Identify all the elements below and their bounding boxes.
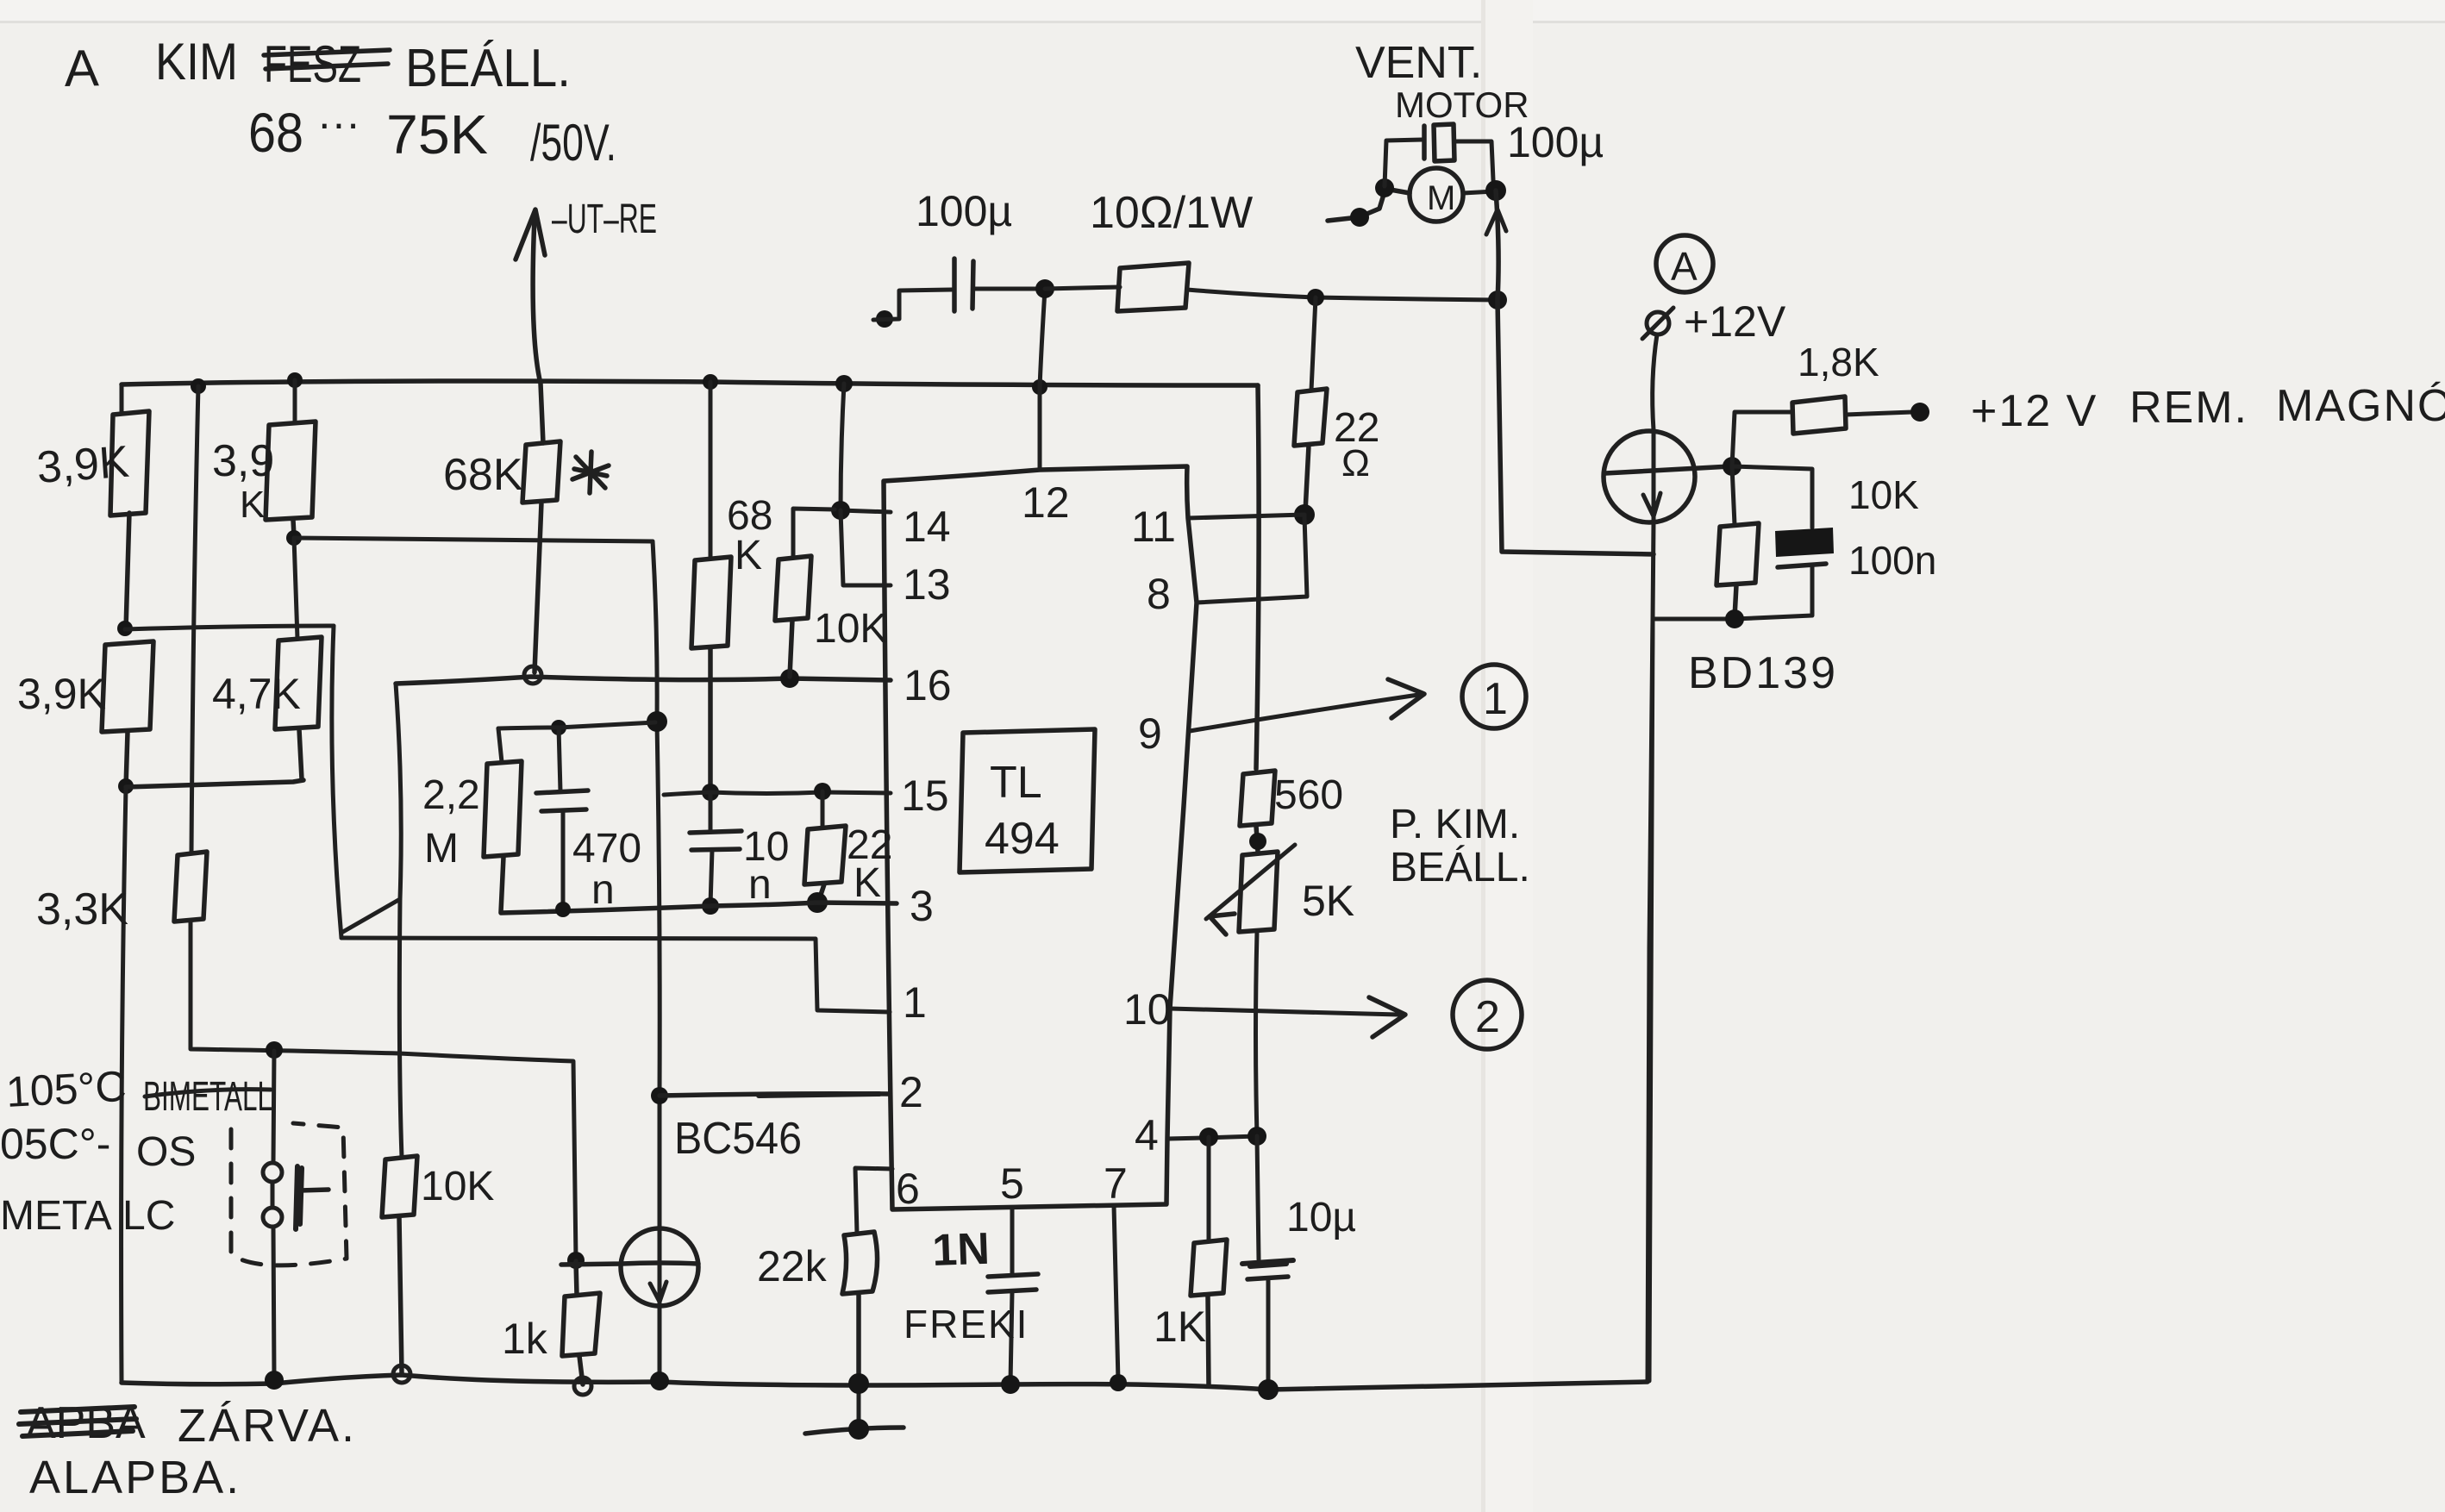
svg-text:4,7K: 4,7K (212, 670, 301, 718)
svg-text:LC: LC (122, 1193, 175, 1239)
node ground bus junction 10K (open) (393, 1365, 410, 1383)
svg-text:TL: TL (990, 758, 1042, 808)
svg-text:3,9K: 3,9K (17, 670, 106, 718)
wire right rail up (1648, 619, 1653, 1382)
wire pin1 line long (341, 938, 890, 1012)
wire pin7 down (1114, 1205, 1118, 1381)
svg-text:14: 14 (903, 503, 951, 551)
node pin3 junction x824 (702, 897, 719, 915)
wire 5K down to pin4 node (1256, 932, 1258, 1136)
svg-text:M: M (1427, 179, 1455, 217)
svg-text:494: 494 (985, 814, 1060, 864)
svg-text:1: 1 (903, 978, 927, 1027)
wire frame diagonal into pin1 line (341, 899, 400, 933)
wire pin9 arrow to circled 1 (1190, 695, 1418, 731)
svg-text:+12 V: +12 V (1971, 386, 2098, 436)
potentiometer R 5K (1239, 852, 1278, 932)
svg-text:16: 16 (904, 661, 952, 709)
wire top supply bus (122, 381, 1258, 385)
svg-text:13: 13 (903, 560, 951, 609)
svg-text:BIMETALL: BIMETALL (143, 1074, 272, 1120)
wire left rail lower part (122, 787, 126, 1383)
svg-text:1,8K: 1,8K (1798, 340, 1879, 384)
node ground bus junction bimetal (265, 1371, 284, 1390)
svg-text:10µ: 10µ (1286, 1195, 1356, 1240)
node 1K top junction base BC546 (567, 1252, 585, 1269)
svg-text:10K: 10K (421, 1164, 494, 1209)
node ground bus junction pin5 cap (1001, 1375, 1020, 1394)
wire y913 from left rail to 4.7K bottom (126, 780, 303, 787)
svg-text:n: n (748, 862, 772, 908)
resistor R 3.9K no.2 lower-left (102, 641, 153, 787)
resistor R 3.3K (174, 852, 207, 922)
transistor Q BC546 (621, 1228, 698, 1306)
bimetal actuator bar (296, 1166, 302, 1229)
wire pin16 line frame top (396, 677, 891, 684)
circled A (1656, 235, 1713, 292)
svg-text:75K: 75K (386, 103, 488, 166)
svg-text:K: K (735, 533, 762, 578)
wire V3 to 4.7K (294, 538, 297, 639)
node x762 junction pin2 wire (651, 1087, 668, 1104)
wire BC546 emitter to bus (658, 1307, 662, 1379)
svg-text:OS: OS (136, 1129, 196, 1175)
resistor R 10K lower (on x466) (382, 1156, 417, 1373)
node 68K-star bottom (open) (524, 666, 541, 684)
svg-text:5: 5 (1000, 1159, 1024, 1208)
node 470n top junction (551, 720, 566, 735)
resistor R 68K star (522, 441, 560, 672)
node ground bus junction pin7 (1110, 1374, 1127, 1391)
node bus junction V3 (287, 372, 303, 388)
svg-text:2: 2 (1475, 992, 1500, 1042)
node 470n bottom junction (555, 902, 571, 917)
capacitor C FREKI (988, 1274, 1038, 1292)
svg-text:A: A (1671, 244, 1698, 289)
svg-text:100µ: 100µ (1507, 118, 1604, 166)
svg-text:3,9: 3,9 (212, 436, 274, 486)
wire motor left lead (1328, 189, 1410, 221)
node 10K2 bottom junction (780, 669, 799, 688)
svg-text:8: 8 (1147, 570, 1171, 618)
wire y840 2.2M top to x762 (498, 722, 655, 728)
svg-text:1N: 1N (931, 1224, 990, 1276)
svg-text:68K: 68K (443, 450, 523, 500)
circled 2 (1453, 980, 1522, 1049)
wire +12V to BD139 collector (1653, 334, 1657, 430)
wire bottom ground bus (122, 1375, 1648, 1390)
svg-text:05C°-: 05C°- (0, 1120, 110, 1168)
svg-text:+12V: +12V (1684, 297, 1786, 346)
node ground bus junction 10u (1258, 1379, 1279, 1400)
node 560-5K junction (1249, 833, 1266, 850)
svg-text:7: 7 (1104, 1159, 1128, 1208)
node motor left junctions (1375, 178, 1394, 197)
resistor R 10K no.2 (793, 509, 835, 558)
svg-text:2,2: 2,2 (422, 772, 480, 818)
svg-text:REM.: REM. (2129, 383, 2248, 433)
svg-text:K: K (854, 860, 881, 906)
node pin15 junction x824 (702, 784, 719, 801)
svg-text:n: n (591, 867, 615, 913)
arrow up on motor vertical (1486, 209, 1506, 234)
svg-text:100n: 100n (1848, 538, 1936, 583)
bimetal dashed enclosure (231, 1123, 347, 1265)
motor M circle (1410, 168, 1463, 222)
terminal +12V REM (1910, 403, 1929, 422)
wire pin10 arrow to circled 2 (1170, 1009, 1398, 1015)
resistor R 1K no.2 (1207, 1137, 1211, 1241)
wire wobbly vertical to pin1 line (332, 626, 341, 938)
wire pin13 jog (841, 510, 891, 585)
capacitor C 100u motor (1385, 140, 1423, 186)
node pin14 junction (831, 501, 850, 520)
svg-text:BEÁLL.: BEÁLL. (405, 39, 571, 98)
wire pin11 (1188, 515, 1304, 518)
wire second rail from bus to bimetal corner (191, 386, 198, 853)
node junction 3.9K1-3.9K4 (117, 621, 133, 636)
svg-text:10K: 10K (1848, 472, 1919, 517)
svg-text:/50V.: /50V. (530, 114, 616, 172)
resistor R 4.7K (275, 637, 322, 779)
capacitor C 10u (1257, 1136, 1259, 1259)
ground stub (805, 1428, 904, 1434)
node ground bus junction BC546 emitter (650, 1371, 669, 1390)
wire pin2 (660, 1094, 889, 1096)
wire pin3 (501, 903, 897, 913)
wire 3.3K to corner and right to 1K (191, 921, 576, 1260)
svg-text:4: 4 (1135, 1111, 1159, 1159)
wire pin4 (1167, 1136, 1257, 1139)
resistor R 3.9K no.1 (110, 411, 149, 629)
wire pin14 node from bus (841, 384, 891, 512)
resistor R 3.9K no.3 (266, 422, 316, 536)
svg-text:VENT.: VENT. (1355, 38, 1482, 88)
node base junction 10K3 top (1723, 457, 1742, 476)
resistor R 1.8K (1732, 412, 1791, 466)
arrow -UT-RE (533, 217, 543, 443)
terminal +12V with slash (1647, 312, 1669, 334)
svg-text:Ω: Ω (1341, 442, 1370, 484)
node 10K3 bottom junction (1725, 609, 1744, 628)
wire y625 from V3 to x757 vertical (294, 538, 653, 541)
svg-text:10K: 10K (814, 606, 887, 652)
capacitor C 100n (1732, 466, 1812, 528)
svg-text:BD139: BD139 (1688, 648, 1838, 698)
node junction left rail y913 (118, 778, 134, 794)
svg-text:3: 3 (910, 882, 934, 930)
wire left rail with resistors (120, 384, 124, 413)
resistor R 1K left (562, 1261, 600, 1384)
capacitor C 100u no.1 (876, 310, 893, 328)
svg-text:3,9K: 3,9K (35, 437, 131, 493)
resistor R 10ohm 1W (1045, 287, 1120, 289)
svg-text:1k: 1k (502, 1315, 548, 1363)
node bus junction pin14 (835, 375, 853, 392)
svg-text:FREKI: FREKI (904, 1302, 1029, 1346)
svg-text:A: A (64, 39, 99, 97)
svg-text:P. KIM.: P. KIM. (1390, 802, 1520, 847)
wire pin15 (664, 792, 891, 795)
wire bus right corner down to 560 (1256, 385, 1259, 769)
wire BD139 emitter down (1649, 522, 1654, 1381)
circled 1 (1462, 665, 1526, 728)
svg-text:15: 15 (901, 772, 949, 820)
resistor R 22k no.2 (842, 1232, 878, 1381)
node 22ohm top junction (1307, 289, 1324, 306)
resistor R 68K no.2 (709, 382, 713, 559)
svg-text:12: 12 (1022, 478, 1070, 527)
wire motor right lead (1463, 191, 1494, 193)
svg-text:KIM: KIM (155, 33, 238, 91)
resistor R 22ohm (1311, 297, 1316, 390)
svg-text:1K: 1K (1154, 1303, 1206, 1351)
node motor vertical junction (1488, 291, 1507, 309)
node 22K bottom junction (807, 892, 828, 913)
node 22ohm bottom pin11 junction (1294, 504, 1315, 525)
wire x762 vertical to BC546 collector (653, 541, 660, 1230)
svg-text:BC546: BC546 (674, 1114, 802, 1164)
bimetal contact circles (263, 1163, 282, 1182)
svg-text:META: META (0, 1193, 112, 1239)
resistor R 10K no.3 (1732, 466, 1735, 525)
svg-text:K: K (240, 484, 265, 526)
svg-text:10Ω/1W: 10Ω/1W (1090, 188, 1253, 238)
svg-text:MAGNÓ: MAGNÓ (2276, 381, 2445, 431)
node 100u-10ohm junction (1035, 279, 1054, 298)
wire pin12 vertical (1040, 290, 1045, 469)
IC label box TL 494 (960, 729, 1095, 872)
node x762 junction y838 (647, 711, 667, 732)
wire emitter node to 100n bottom (1653, 615, 1812, 619)
wire pin8 (1197, 516, 1307, 603)
svg-text:100µ: 100µ (916, 187, 1012, 235)
resistor R 560 (1240, 771, 1275, 852)
node ground bus junction 22k (848, 1373, 869, 1394)
svg-text:10: 10 (1123, 985, 1172, 1034)
wire y727 from left rail to wobbly vertical (125, 626, 334, 629)
wire 22k below bus to ground stub (857, 1386, 861, 1428)
capacitor C 10n (709, 792, 713, 831)
svg-text:BEÁLL.: BEÁLL. (1390, 845, 1530, 890)
transistor Q BD139 (1604, 431, 1695, 522)
node motor right junction (1485, 180, 1506, 201)
svg-text:–UT–RE: –UT–RE (552, 197, 657, 242)
node junction V3 y625 (286, 530, 302, 546)
svg-text:···: ··· (317, 99, 360, 147)
svg-text:6: 6 (896, 1165, 920, 1213)
svg-text:22k: 22k (757, 1242, 828, 1290)
svg-text:11: 11 (1131, 503, 1176, 551)
frame left edge 2.2M block (396, 684, 402, 1158)
wire pin6 jog to 22k (855, 1168, 892, 1234)
node pin4 x1458 junction (1248, 1127, 1266, 1146)
node bus junction pin12 (1032, 379, 1047, 395)
resistor R 22K (821, 791, 825, 828)
bimetal switch vertical with contacts (272, 1051, 274, 1378)
svg-text:560: 560 (1274, 772, 1343, 818)
node 1K bottom on bus (open) (574, 1378, 591, 1395)
svg-text:105°C: 105°C (5, 1062, 128, 1116)
wire V3 from bus through 3.9K3 (293, 380, 297, 423)
resistor R 2.2M (498, 728, 502, 762)
svg-text:ALAPBA.: ALAPBA. (29, 1452, 241, 1503)
node 22K top junction (814, 783, 831, 800)
svg-text:3,3K: 3,3K (36, 884, 128, 934)
IC U1 TL494 outline (884, 466, 1197, 1209)
capacitor C 470n (559, 728, 560, 791)
node bus junction 68K2 (703, 374, 718, 390)
svg-text:M: M (424, 826, 459, 872)
node bus-left junction (191, 378, 206, 394)
svg-text:1: 1 (1483, 674, 1508, 724)
svg-text:ZÁRVA.: ZÁRVA. (178, 1400, 357, 1452)
wire motor vertical down to emitter wire (1496, 191, 1654, 554)
svg-text:470: 470 (572, 826, 641, 872)
svg-text:68: 68 (248, 102, 303, 164)
node pin4 1K2 junction (1199, 1128, 1218, 1146)
svg-text:2: 2 (899, 1068, 923, 1116)
svg-text:9: 9 (1138, 709, 1162, 758)
wire pin5 to FREKI cap (1010, 1209, 1015, 1275)
svg-text:5K: 5K (1302, 877, 1354, 925)
node bimetal top junction (266, 1041, 283, 1059)
star symbol (572, 452, 609, 493)
